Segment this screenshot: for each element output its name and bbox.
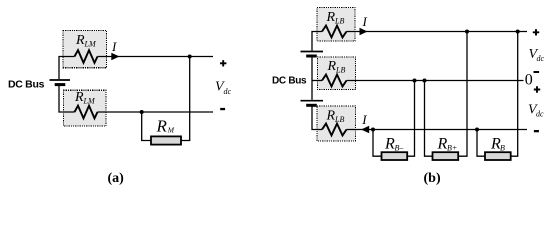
wire bus up to RLB1 — [312, 32, 322, 51]
svg-text:LB: LB — [335, 66, 345, 75]
current arrow I (a) — [111, 53, 119, 60]
svg-text:R: R — [437, 135, 448, 152]
svg-text:DC Bus: DC Bus — [8, 78, 45, 90]
svg-text:R: R — [156, 117, 168, 136]
svg-text:(a): (a) — [108, 171, 125, 186]
wire RB up to + rail — [511, 32, 518, 157]
wire RLB3 to - rail — [347, 129, 528, 131]
junction node - rail / RB — [475, 128, 479, 132]
battery B2 short plate — [306, 55, 317, 58]
battery B2 long plate — [301, 51, 324, 53]
resistor RLB1 — [322, 26, 347, 38]
dashed box RLM1 — [63, 31, 107, 68]
battery B3 long plate — [301, 100, 324, 102]
terminal + (a) — [220, 60, 226, 66]
current arrow I bottom (b), pointing left — [361, 126, 369, 133]
junction node on + rail (a) — [188, 55, 192, 59]
battery B3 short plate — [306, 104, 317, 107]
svg-text:B+: B+ — [447, 144, 457, 153]
terminal - bottom (b) — [534, 130, 539, 132]
junction node + rail / RB+ — [465, 30, 469, 34]
dashed box RLB2 — [318, 57, 356, 90]
wire DC bus up to RLM1 — [59, 57, 75, 80]
wire bus down to RLB3 — [312, 107, 322, 130]
junction node + rail / RB — [516, 30, 520, 34]
svg-text:R: R — [327, 59, 337, 74]
resistor RB+ box — [433, 152, 459, 160]
wire RLM1 to + terminal — [98, 56, 214, 58]
current arrow I top (b) — [360, 28, 368, 35]
wire - rail down to RM — [142, 112, 151, 141]
junction node 0 rail / RB+ — [423, 79, 427, 83]
svg-text:LM: LM — [83, 97, 96, 106]
svg-text:B: B — [500, 143, 505, 152]
wire RM up to + rail — [181, 57, 190, 141]
wire bus to RLB2 — [312, 80, 322, 82]
svg-text:R: R — [384, 135, 395, 152]
svg-text:R: R — [326, 109, 336, 124]
wire RLB1 to + rail — [347, 31, 528, 33]
dashed box RLB3 — [317, 106, 356, 141]
wire RLM2 to - terminal — [98, 111, 214, 113]
svg-text:I: I — [361, 112, 367, 127]
svg-text:M: M — [167, 125, 175, 134]
svg-text:dc: dc — [537, 54, 545, 63]
resistor RB- box — [382, 152, 408, 160]
wire - rail down to RB- — [373, 130, 382, 157]
svg-text:LM: LM — [84, 40, 97, 49]
resistor RM box — [151, 136, 181, 144]
wire 0 rail down to RB+ — [425, 81, 433, 157]
battery B1 short plate — [55, 83, 66, 86]
svg-text:LB: LB — [334, 17, 344, 26]
resistor RLB3 — [322, 124, 347, 136]
terminal - above 0 (b) — [534, 71, 540, 73]
junction node on - rail (a) — [140, 110, 144, 114]
dashed box RLB1 — [317, 8, 355, 42]
svg-text:DC Bus: DC Bus — [272, 76, 307, 87]
wire bus between batteries — [311, 57, 313, 100]
wire - rail down to RB — [477, 130, 485, 157]
junction node - rail / RB- — [371, 128, 375, 132]
resistor RLB2 — [322, 75, 347, 87]
wire RB+ up to + rail — [458, 32, 467, 157]
terminal + top (b) — [533, 29, 539, 35]
svg-text:I: I — [111, 39, 117, 54]
svg-text:R: R — [326, 10, 336, 25]
resistor RB box — [485, 152, 511, 160]
svg-text:R: R — [75, 33, 85, 48]
svg-text:B–: B– — [395, 144, 405, 153]
wire RLB2 to 0 rail — [347, 80, 524, 82]
resistor RLM1 — [75, 50, 98, 63]
svg-text:LB: LB — [334, 115, 344, 124]
battery B1 long plate — [50, 79, 71, 81]
dashed box RLM2 — [64, 90, 107, 126]
svg-text:dc: dc — [536, 109, 544, 118]
svg-text:0: 0 — [525, 72, 533, 89]
wire RB- up to 0 rail — [407, 81, 414, 157]
wire battery down to RLM2 — [59, 86, 75, 112]
svg-text:(b): (b) — [424, 171, 441, 186]
terminal + below 0 (b) — [534, 86, 540, 92]
terminal - (a) — [220, 108, 225, 110]
junction node 0 rail / RB- — [413, 79, 417, 83]
svg-text:I: I — [362, 14, 368, 29]
resistor RLM2 — [75, 106, 98, 119]
svg-text:dc: dc — [224, 87, 232, 96]
svg-text:R: R — [74, 90, 84, 105]
